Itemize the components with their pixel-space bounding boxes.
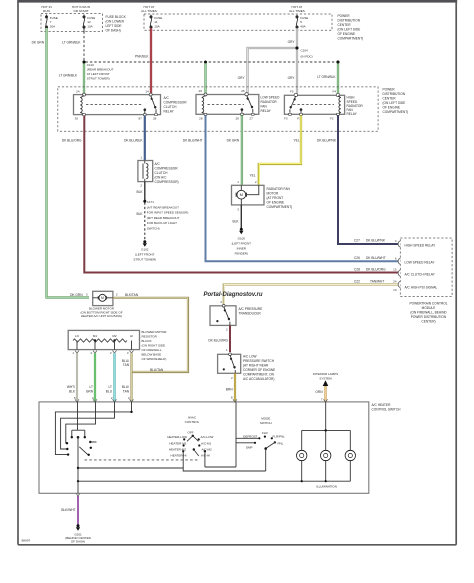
svg-text:A/C LOW: A/C LOW (243, 355, 256, 359)
svg-text:C22: C22 (354, 279, 360, 283)
svg-text:YEL: YEL (249, 174, 255, 178)
PCM pin arc row1 (398, 241, 400, 247)
svg-text:(ON A/C: (ON A/C (155, 176, 168, 180)
svg-text:C104: C104 (301, 49, 309, 53)
svg-text:A/C HEATER: A/C HEATER (372, 403, 392, 407)
svg-text:A/C-LOW: A/C-LOW (201, 435, 214, 439)
resistor zigzag chain (73, 339, 127, 342)
wire BLK/TAN blower motor feed (113, 298, 188, 372)
svg-text:FOR BACK-UP LIGHT: FOR BACK-UP LIGHT (147, 221, 177, 225)
control switch top pin chevrons (75, 399, 328, 402)
svg-text:A/C: A/C (164, 96, 170, 100)
PCM pin arc row4 (398, 281, 400, 287)
relay K2 coil (202, 95, 206, 114)
svg-text:DK BLU/ORG: DK BLU/ORG (62, 139, 82, 143)
svg-text:DISTRIBUTION: DISTRIBUTION (383, 92, 406, 96)
svg-text:24: 24 (393, 280, 397, 284)
svg-text:98A97: 98A97 (22, 539, 31, 543)
svg-text:ILLUMINATION: ILLUMINATION (316, 485, 337, 489)
relay K2 actuator dashed (208, 104, 245, 106)
relay K3 switch (290, 96, 295, 109)
svg-text:(LEFT FRONT: (LEFT FRONT (232, 242, 252, 246)
fan switch nest wire w2 (66, 402, 96, 443)
svg-text:OF DASH): OF DASH) (71, 539, 85, 543)
svg-text:MODE: MODE (261, 417, 270, 421)
svg-text:BLK: BLK (136, 212, 143, 216)
svg-text:BRN: BRN (226, 388, 233, 392)
svg-text:(REAR BREAKOUT: (REAR BREAKOUT (87, 68, 114, 72)
svg-text:CENTER: CENTER (383, 97, 397, 101)
svg-text:FUSE BLOCK: FUSE BLOCK (106, 15, 127, 19)
svg-text:(ON RIGHT SIDE: (ON RIGHT SIDE (142, 344, 165, 348)
wire DK GRN relay2 switch to fan motor (241, 115, 243, 185)
svg-text:24: 24 (76, 89, 80, 93)
wire C110 bus dashed to relay3 coil (86, 61, 338, 63)
svg-text:SWITCH: SWITCH (260, 421, 272, 425)
svg-text:BLOWER MOTOR: BLOWER MOTOR (142, 330, 168, 334)
svg-text:BLK/WHT: BLK/WHT (61, 508, 75, 512)
svg-text:C28: C28 (354, 267, 360, 271)
svg-text:A/C-M2: A/C-M2 (202, 447, 212, 451)
wire LT GRN/BLK drop to relay2 (204, 62, 206, 95)
fan switch nest wire w1 (72, 402, 85, 437)
wire LT GRN/BLK drop to relay3 coil (337, 62, 339, 95)
wire GRY branch to relay2 (248, 48, 298, 94)
mode switch wiper (266, 442, 275, 448)
svg-text:DK GRN: DK GRN (32, 41, 45, 45)
svg-text:(AT FRONT: (AT FRONT (267, 196, 284, 200)
lamp top bus (302, 429, 351, 431)
svg-text:CONTROL: CONTROL (185, 420, 200, 424)
wire BRN low pressure switch to control switch (234, 373, 236, 402)
svg-text:F5: F5 (290, 90, 294, 94)
svg-text:F2: F2 (330, 116, 334, 120)
svg-text:SYSTEM: SYSTEM (319, 377, 332, 381)
svg-text:Portal-Diagnostov.ru: Portal-Diagnostov.ru (204, 292, 263, 298)
fan common bus (78, 467, 183, 469)
svg-text:MOTOR: MOTOR (267, 192, 280, 196)
svg-text:DK BLU/PNK: DK BLU/PNK (366, 239, 386, 243)
svg-text:OF ENGINE: OF ENGINE (383, 106, 401, 110)
svg-text:LOW SPEED RELAY: LOW SPEED RELAY (405, 261, 436, 265)
svg-text:LEFT SIDE: LEFT SIDE (106, 24, 122, 28)
svg-text:14: 14 (145, 89, 149, 93)
wire LT BLU resistor M2 to switch (113, 353, 115, 402)
illumination lamp 2 (325, 430, 327, 481)
powertrain control module dashed box (400, 238, 452, 297)
svg-text:CLUTCH: CLUTCH (155, 171, 169, 175)
svg-text:87: 87 (138, 116, 142, 120)
svg-text:BLK: BLK (232, 220, 239, 224)
svg-text:COMPRESSOR: COMPRESSOR (155, 167, 179, 171)
wire DK BLU/ORG relay1 coil to PCM (84, 116, 398, 273)
svg-text:28: 28 (235, 116, 239, 120)
svg-text:A/C-HI: A/C-HI (201, 454, 210, 458)
relay K3 high speed radiator fan relay box (284, 95, 344, 114)
svg-text:STRUT TOWER): STRUT TOWER) (133, 258, 156, 262)
svg-text:28: 28 (199, 116, 203, 120)
svg-text:26: 26 (199, 89, 203, 93)
svg-text:12: 12 (87, 20, 91, 24)
svg-text:OF ENGINE: OF ENGINE (338, 32, 356, 36)
svg-text:(A/T REAR BREAKOUT: (A/T REAR BREAKOUT (147, 205, 179, 209)
wire DK BLU/WHT relay2 coil to PCM (206, 115, 399, 261)
illumination bus bottom (78, 480, 350, 482)
wire LT GRN/BLK drop to relay1 (83, 62, 85, 95)
clutch coil (142, 164, 144, 179)
svg-text:BELOW BASE: BELOW BASE (142, 353, 162, 357)
arrow from interior lamps (323, 380, 329, 386)
svg-text:GRN: GRN (86, 389, 94, 393)
A/C pressure transducer B1 box (210, 306, 236, 326)
svg-text:DISTRIBUTION: DISTRIBUTION (338, 19, 361, 23)
svg-text:(ON FIREWALL, BEHIND: (ON FIREWALL, BEHIND (410, 311, 447, 315)
svg-text:POWERTRAIN CONTROL: POWERTRAIN CONTROL (409, 302, 447, 306)
svg-text:15: 15 (393, 268, 397, 272)
mechanical link dashed (85, 459, 200, 461)
svg-text:(ON LOWER: (ON LOWER (106, 20, 125, 24)
svg-text:FENDER): FENDER) (235, 252, 248, 256)
svg-text:A/C ACCUMULATOR): A/C ACCUMULATOR) (243, 377, 274, 381)
svg-text:SWITCH): SWITCH) (147, 227, 160, 231)
relay K3 bottom pins (289, 113, 292, 115)
svg-text:COMPARTMENT): COMPARTMENT) (267, 205, 293, 209)
svg-text:PRESSURE SWITCH: PRESSURE SWITCH (243, 359, 275, 363)
bottom pin chevron (76, 493, 80, 496)
svg-text:CORNER OF ENGINE: CORNER OF ENGINE (243, 368, 275, 372)
fuse F12 10A (83, 15, 85, 32)
svg-text:G100: G100 (238, 237, 246, 241)
wire TAN/WHT PCM to A/C pressure transducer (224, 285, 399, 305)
svg-text:FLR/PNL: FLR/PNL (273, 435, 286, 439)
wire LT GRN/BLK dashed from fuse 12 to C110 (83, 32, 85, 62)
svg-text:YEL: YEL (293, 139, 299, 143)
fuse F7 20A (45, 15, 47, 32)
wire BLU/TAN resistor HI junction to switch (130, 353, 132, 402)
wire DK BLU/BLK relay1 switch to clutch (144, 116, 146, 161)
svg-text:OFF: OFF (188, 431, 194, 435)
svg-text:OF ENGINE: OF ENGINE (267, 201, 285, 205)
svg-text:M1: M1 (93, 334, 97, 338)
svg-text:BLK: BLK (69, 389, 76, 393)
svg-text:GRY: GRY (288, 40, 296, 44)
relay K1 coil (80, 96, 84, 115)
svg-text:HVAC: HVAC (188, 416, 197, 420)
svg-text:RUN: RUN (43, 9, 50, 13)
svg-text:(LEFT FRONT: (LEFT FRONT (135, 253, 155, 257)
wire GRY from fuse 5 (296, 28, 298, 94)
svg-text:FOR INPUT SPEED SENSOR): FOR INPUT SPEED SENSOR) (147, 211, 189, 215)
svg-text:10A: 10A (87, 24, 92, 28)
svg-text:POWER DISTRIBUTION: POWER DISTRIBUTION (411, 315, 447, 319)
svg-text:CENTER: CENTER (338, 23, 352, 27)
svg-text:LO: LO (75, 334, 80, 338)
ground G102 (143, 240, 146, 243)
page frame top bar (17, 0, 457, 3)
svg-text:AT LEFT FRONT: AT LEFT FRONT (87, 72, 110, 76)
relay K1 A/C compressor clutch relay box (74, 95, 161, 115)
svg-text:(M/T REAR BREAKOUT: (M/T REAR BREAKOUT (147, 216, 180, 220)
svg-text:RESISTOR: RESISTOR (142, 335, 158, 339)
relay K1 bottom pins (83, 114, 86, 116)
wire DK GRN from fuse 7 (left long run) (47, 28, 90, 298)
svg-text:BLK/TAN: BLK/TAN (125, 293, 139, 297)
svg-text:MODULE: MODULE (422, 306, 436, 310)
svg-text:(AT RIGHT REAR: (AT RIGHT REAR (243, 364, 269, 368)
svg-text:DK GRN: DK GRN (70, 293, 83, 297)
svg-text:28: 28 (153, 116, 157, 120)
ground G100 (240, 228, 243, 231)
blower motor M2 box (93, 291, 113, 305)
svg-text:(ON LEFT SIDE: (ON LEFT SIDE (338, 28, 361, 32)
fan motor leads (241, 185, 258, 205)
heater-HI loop wires (183, 449, 266, 471)
svg-text:HEATER-HI: HEATER-HI (171, 454, 187, 458)
svg-text:DK BLU/WHT: DK BLU/WHT (366, 256, 386, 260)
svg-text:INNER: INNER (237, 247, 247, 251)
svg-text:LT GRN/BLK: LT GRN/BLK (59, 74, 78, 78)
svg-text:FLR: FLR (262, 431, 269, 435)
ORN feed inside box (325, 402, 327, 430)
svg-text:30: 30 (75, 116, 79, 120)
svg-text:POWER: POWER (383, 88, 396, 92)
svg-text:DK BLU/BLK: DK BLU/BLK (124, 139, 143, 143)
svg-text:40A: 40A (300, 24, 305, 28)
A/C-HI to BRN line (205, 451, 236, 467)
svg-text:A/C-M1: A/C-M1 (201, 441, 211, 445)
transducer switch (224, 307, 230, 321)
power distribution center dashed box (58, 87, 378, 131)
fan motor symbol (237, 190, 246, 199)
svg-text:C26: C26 (354, 256, 360, 260)
svg-text:DK BLU/PNK: DK BLU/PNK (317, 139, 337, 143)
svg-text:DMP: DMP (246, 446, 253, 450)
relay K1 actuator dashed (86, 104, 142, 106)
relay K2 switch (247, 95, 253, 108)
wire WHT/BLK resistor LO to switch (76, 353, 78, 402)
svg-text:G102: G102 (141, 248, 149, 252)
svg-text:COMPARTMENT, ON: COMPARTMENT, ON (243, 373, 275, 377)
svg-text:M: M (101, 296, 104, 300)
svg-text:PNK/BLK: PNK/BLK (135, 55, 149, 59)
svg-text:HI: HI (130, 334, 133, 338)
svg-text:CONTROL SWITCH: CONTROL SWITCH (372, 408, 402, 412)
A/C low pressure switch B2 box (218, 354, 241, 373)
relay K2 bottom pins (204, 113, 207, 115)
svg-text:M2: M2 (112, 334, 116, 338)
svg-text:OF DASH): OF DASH) (106, 29, 121, 33)
svg-text:A/C CLUTCH RELAY: A/C CLUTCH RELAY (405, 272, 436, 276)
power distribution center fuse dashed box (144, 14, 332, 30)
illumination lamp 1 (301, 430, 303, 481)
main switch output to ground pin (77, 468, 79, 493)
svg-text:RELAY: RELAY (347, 112, 358, 116)
svg-text:ALL TIMES: ALL TIMES (289, 9, 305, 13)
wire BLK clutch to C171 (144, 182, 146, 201)
node C110 junction (83, 61, 86, 64)
svg-text:OF WINDSHIELD): OF WINDSHIELD) (142, 357, 167, 361)
resistor bottom pin chevrons (75, 351, 134, 354)
svg-text:COMPARTMENT): COMPARTMENT) (383, 110, 409, 114)
low pressure switch contacts (230, 355, 235, 369)
wire PNK/BLK from fuse 11 to relay1 (150, 28, 152, 95)
svg-text:TRANSDUCER: TRANSDUCER (239, 312, 262, 316)
wire LT GRN resistor M1 to switch (94, 353, 96, 402)
relay K3 actuator dashed (293, 104, 334, 106)
svg-text:F3: F3 (284, 116, 288, 120)
svg-text:HIGH SPEED RELAY: HIGH SPEED RELAY (405, 243, 437, 247)
svg-text:GRY: GRY (288, 76, 296, 80)
A/C heater control switch S1 box (39, 402, 369, 493)
svg-text:LOW SPEED: LOW SPEED (261, 96, 281, 100)
relay K3 coil (338, 96, 341, 114)
svg-text:INTERIOR LAMPS: INTERIOR LAMPS (313, 372, 338, 376)
fan switch nest wire w4 (55, 402, 131, 455)
svg-text:DK BLU/WHT: DK BLU/WHT (183, 139, 203, 143)
relay K2 low speed radiator fan relay box (196, 95, 259, 115)
svg-text:RELAY: RELAY (164, 110, 175, 114)
svg-text:10A: 10A (154, 24, 159, 28)
ground G201 (77, 524, 80, 527)
illumination lamp 3 (349, 430, 351, 481)
svg-text:C27: C27 (354, 239, 360, 243)
svg-text:C171: C171 (147, 200, 155, 204)
svg-text:20A: 20A (50, 24, 55, 28)
radiator fan motor M1 box (232, 185, 265, 205)
svg-text:RELAY: RELAY (261, 109, 272, 113)
svg-text:OR START: OR START (73, 9, 88, 13)
blower motor resistor block box (68, 330, 139, 349)
svg-text:OF FIREWALL: OF FIREWALL (142, 348, 162, 352)
svg-text:COMPRESSOR: COMPRESSOR (164, 101, 188, 105)
fan switch wiper (77, 436, 80, 439)
svg-text:PNL: PNL (278, 442, 284, 446)
svg-text:ORN: ORN (315, 390, 323, 394)
resistor taps (94, 339, 96, 341)
wire BLK fan motor to ground (240, 205, 242, 228)
node C171 (143, 200, 146, 203)
wire DK BLU/PNK relay3 coil to PCM (338, 115, 399, 244)
fan switch nest wire w3 (61, 402, 115, 449)
svg-text:CENTER): CENTER) (421, 320, 435, 324)
svg-text:RADIATOR FAN: RADIATOR FAN (267, 187, 291, 191)
svg-text:A/C: A/C (155, 162, 161, 166)
wire DK BLU/ORG transducer to low pressure switch (229, 325, 231, 352)
svg-text:A/C HIGH PSI SIGNAL: A/C HIGH PSI SIGNAL (405, 285, 438, 289)
svg-text:10: 10 (393, 288, 397, 292)
svg-text:DK BLU/ORG: DK BLU/ORG (366, 267, 386, 271)
svg-text:DK BLU/ORG: DK BLU/ORG (208, 339, 228, 343)
svg-text:POWER: POWER (338, 14, 351, 18)
blower motor symbol (93, 297, 113, 299)
wire BLK dashed to ground (144, 203, 146, 241)
svg-text:TAN/WHT: TAN/WHT (370, 279, 384, 283)
svg-text:(ON LEFT SIDE: (ON LEFT SIDE (383, 101, 406, 105)
fuse F11 10A (150, 15, 152, 30)
svg-text:RADIATOR: RADIATOR (261, 100, 278, 104)
svg-text:F4: F4 (332, 90, 336, 94)
svg-text:TAN: TAN (123, 389, 130, 393)
node C110 bus dots redraw (83, 61, 86, 64)
svg-text:COMPARTMENT): COMPARTMENT) (338, 37, 364, 41)
svg-text:DK GRN: DK GRN (227, 139, 240, 143)
svg-text:C110: C110 (87, 63, 94, 67)
svg-text:M: M (240, 192, 243, 197)
svg-text:A/C PRESSURE: A/C PRESSURE (239, 307, 263, 311)
svg-text:(IN PDC): (IN PDC) (301, 55, 313, 59)
PCM pin arc row3 (398, 270, 400, 276)
svg-text:BLU/TAN: BLU/TAN (150, 368, 164, 372)
wire ORN (324, 386, 326, 402)
wire YEL relay3 switch to fan motor (259, 115, 301, 185)
svg-text:COMPRESSOR): COMPRESSOR) (155, 180, 179, 184)
fuse F5 40A (296, 15, 298, 30)
svg-text:27: 27 (250, 116, 254, 120)
svg-text:LT GRN/BLK: LT GRN/BLK (317, 75, 336, 79)
PCM pin arc row2 (398, 258, 400, 264)
svg-text:FAN: FAN (261, 105, 268, 109)
node C104 dot redraw (296, 47, 299, 50)
svg-text:GRY: GRY (238, 76, 246, 80)
wire BLK/WHT to ground G201 (77, 496, 79, 525)
svg-text:BLK: BLK (136, 190, 143, 194)
svg-text:HEATER A/C UNIT HOUSING): HEATER A/C UNIT HOUSING) (81, 314, 122, 318)
svg-text:CLUTCH: CLUTCH (164, 105, 178, 109)
fuse block dashed box (41, 14, 103, 32)
svg-text:25: 25 (241, 89, 245, 93)
relay K1 switch (151, 95, 156, 108)
A/C compressor clutch L1 box (138, 161, 153, 182)
svg-text:TAN: TAN (123, 363, 130, 367)
svg-text:BLOCK: BLOCK (142, 339, 152, 343)
svg-text:BLU: BLU (106, 389, 113, 393)
fan rotary lower wiper arm (195, 451, 199, 457)
svg-text:ALL TIMES: ALL TIMES (141, 9, 157, 13)
svg-text:LT GRN/BLK: LT GRN/BLK (62, 41, 81, 45)
mode feed wires from BRN pin (235, 402, 237, 467)
node C104 (296, 47, 299, 50)
svg-text:STRUT TOWER): STRUT TOWER) (87, 77, 110, 81)
